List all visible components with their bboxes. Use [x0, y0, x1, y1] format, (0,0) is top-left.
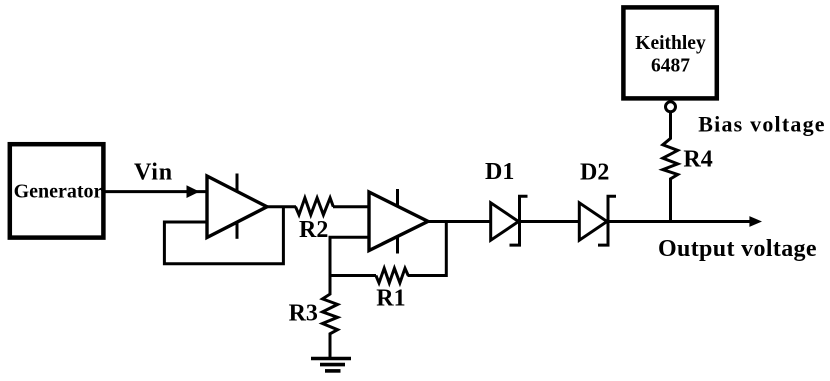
wire R1 to U2 output feedback — [408, 220, 447, 276]
diode D1 cathode bar with zener hooks — [510, 196, 528, 245]
arrowhead on Vin wire — [187, 185, 200, 198]
svg-text:R1: R1 — [376, 286, 405, 312]
svg-text:R2: R2 — [299, 217, 328, 243]
wire R2 to op-amp U2 input — [333, 205, 369, 208]
op-amp U2 positive supply pin — [396, 189, 399, 206]
wire U1 feedback loop (output to inverting input) — [164, 207, 283, 264]
svg-text:Bias voltage: Bias voltage — [698, 112, 825, 137]
op-amp U1 negative supply pin — [236, 222, 239, 239]
resistor R3 — [323, 276, 338, 359]
op-amp U1 (unity-gain buffer) — [207, 176, 267, 238]
diode D1 (zener) — [491, 203, 519, 240]
diode D2 cathode bar with zener hooks — [598, 196, 616, 245]
wire D2 to output (through node B) — [608, 220, 751, 223]
svg-text:6487: 6487 — [651, 55, 690, 76]
wire U2 output to D1 — [426, 220, 491, 223]
resistor R2 — [296, 198, 334, 215]
resistor R1 — [376, 268, 408, 283]
svg-text:D1: D1 — [485, 159, 514, 185]
op-amp U1 positive supply pin — [236, 174, 239, 192]
diode D2 (zener) — [579, 203, 607, 240]
svg-text:R4: R4 — [683, 147, 712, 173]
op-amp U2 negative supply pin — [396, 236, 399, 253]
wire node A to R1 — [330, 274, 376, 277]
svg-text:Vin: Vin — [134, 159, 173, 185]
svg-text:D2: D2 — [580, 159, 609, 185]
svg-text:Keithley: Keithley — [635, 33, 706, 54]
arrowhead output — [749, 216, 762, 227]
op-amp U2 — [369, 192, 428, 251]
wire U2 inverting input to node A — [330, 237, 369, 277]
label Keithley 6487 — [635, 33, 706, 77]
wire D1 to D2 — [520, 220, 580, 223]
terminal circle on Keithley box — [666, 102, 676, 112]
wire U1 output — [265, 205, 296, 208]
svg-text:Generator: Generator — [14, 180, 103, 202]
ground — [311, 359, 351, 371]
svg-text:Output voltage: Output voltage — [658, 236, 817, 262]
generator box — [10, 144, 104, 237]
svg-text:R3: R3 — [289, 300, 318, 326]
wire Vin (generator output to op-amp U1 non-inverting input) — [103, 190, 207, 193]
resistor R4 (vertical) with wires to node B — [663, 112, 678, 222]
Keithley 6487 instrument box — [623, 7, 716, 98]
